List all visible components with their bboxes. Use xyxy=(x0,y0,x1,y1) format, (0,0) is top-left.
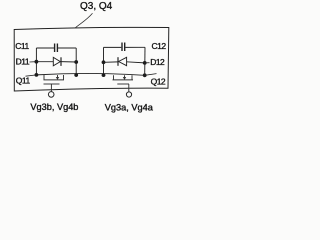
svg-text:D11: D11 xyxy=(16,57,30,67)
svg-text:Vg3a, Vg4a: Vg3a, Vg4a xyxy=(105,102,154,112)
svg-text:Q12: Q12 xyxy=(151,76,166,86)
svg-text:Q3, Q4: Q3, Q4 xyxy=(80,1,113,12)
svg-text:Vg3b, Vg4b: Vg3b, Vg4b xyxy=(30,102,78,112)
svg-text:C12: C12 xyxy=(152,41,167,51)
svg-text:Q11: Q11 xyxy=(16,75,31,85)
svg-text:C11: C11 xyxy=(15,41,29,51)
svg-text:D12: D12 xyxy=(150,57,165,67)
